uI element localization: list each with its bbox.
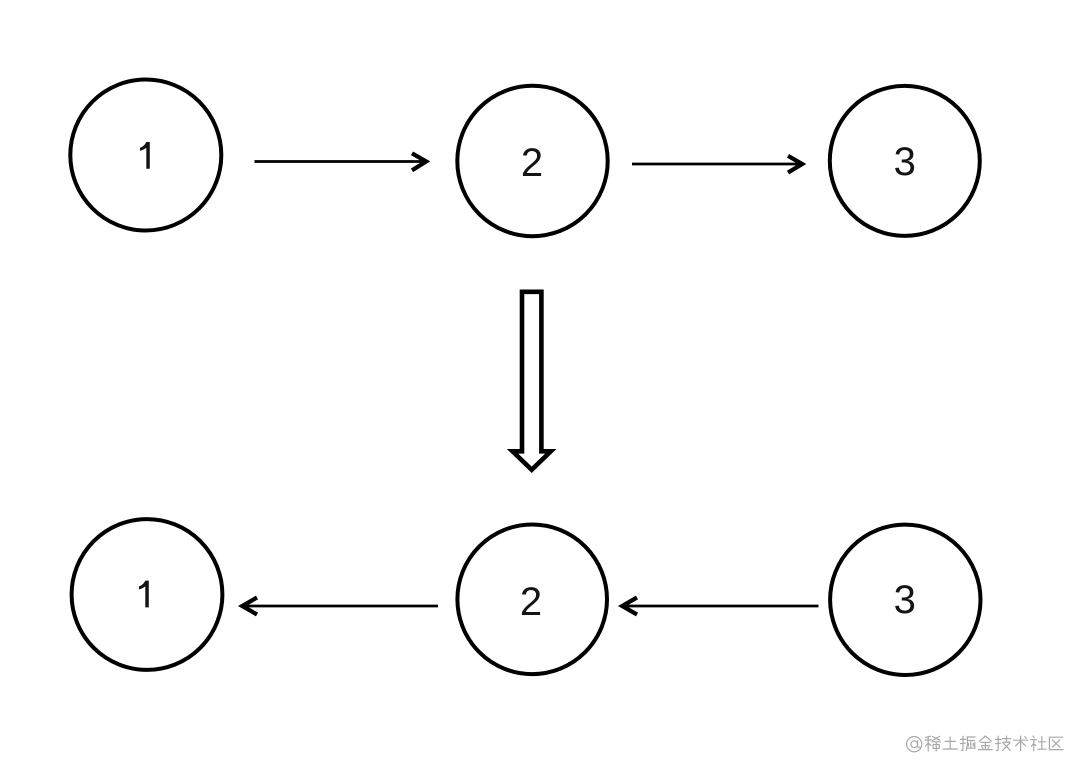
- node 1 (top row circle): [70, 80, 221, 231]
- arrow bottom 3→2 (wire, points left): [622, 598, 819, 615]
- node 3 (top row circle): [830, 86, 980, 236]
- node 3 (bottom row circle): [830, 525, 980, 675]
- @: [907, 737, 922, 752]
- 掘: [960, 736, 975, 750]
- svg-text:2: 2: [520, 580, 542, 624]
- 区: [1049, 737, 1063, 749]
- 技: [996, 736, 1011, 751]
- svg-text:3: 3: [894, 578, 916, 622]
- label 1 (bottom): [139, 581, 149, 608]
- arrow top 2→3 (wire): [632, 156, 802, 173]
- arrow top 1→2 (wire): [255, 153, 427, 170]
- node 2 (top row circle): [457, 86, 607, 236]
- 土: [943, 737, 957, 749]
- label 1 (top): [140, 142, 150, 169]
- arrow bottom 2→1 (wire, points left): [242, 598, 438, 615]
- big hollow down arrow (transform indicator): [513, 292, 551, 470]
- svg-text:3: 3: [894, 140, 916, 184]
- svg-text:2: 2: [521, 141, 543, 185]
- watermark @稀土掘金技术社区 (drawn strokes, gray): [907, 736, 1063, 752]
- node 2 (bottom row circle): [457, 525, 607, 675]
- 术: [1014, 736, 1028, 751]
- 金: [979, 736, 993, 750]
- 稀: [925, 736, 940, 751]
- node 1 (bottom row circle): [72, 519, 223, 670]
- 社: [1031, 736, 1046, 751]
